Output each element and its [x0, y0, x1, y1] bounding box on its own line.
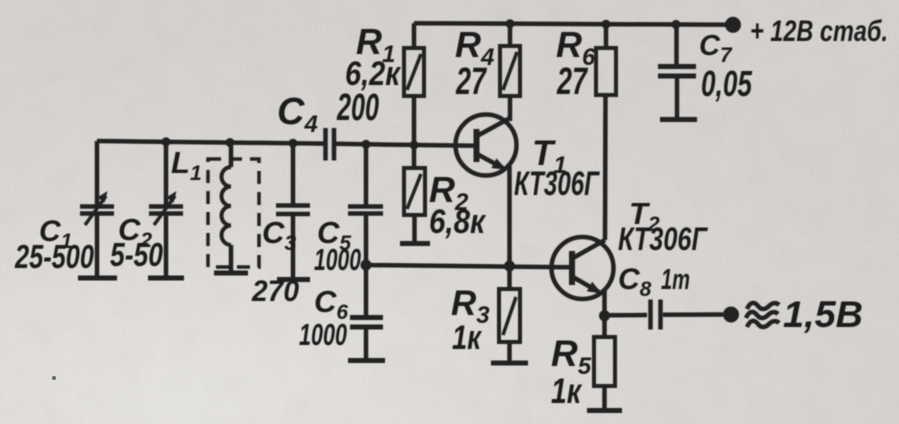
wire C3 top lead	[291, 143, 296, 203]
svg-text:1,5В: 1,5В	[783, 294, 863, 335]
junction dot output node	[599, 310, 610, 321]
wire R1 top lead from rail	[412, 23, 417, 48]
wire R2 top lead	[412, 145, 417, 168]
terminal +12V	[725, 17, 741, 33]
wire L1 top lead	[229, 143, 234, 168]
variable arrow C1	[85, 196, 106, 225]
svg-text:5-50: 5-50	[110, 236, 164, 273]
resistor R3 body	[499, 289, 520, 342]
wire C4 right to T1 base	[334, 144, 476, 146]
capacitor C1 plates	[80, 204, 114, 209]
wire C1 top lead	[95, 141, 100, 205]
left tank bus wire (C1..C4)	[97, 141, 325, 144]
wire R6 bottom lead down to T2 collector	[603, 95, 608, 240]
transistor T2 base bar	[569, 251, 575, 285]
wire T1 emitter down to lower bus	[507, 166, 512, 266]
capacitor C4 plates (series in bus)	[323, 128, 328, 161]
svg-text:1к: 1к	[452, 319, 482, 357]
wire R5 bottom lead	[602, 386, 607, 408]
wire C1 bottom lead	[95, 216, 100, 277]
wire R3 bottom lead	[507, 342, 512, 361]
junction dot rail/R6	[602, 20, 611, 29]
inductor L1 coil	[222, 167, 232, 245]
wire R2 bottom lead	[412, 215, 417, 241]
svg-text:1к: 1к	[551, 372, 583, 411]
junction dot bus/C3	[289, 139, 298, 148]
svg-text:270: 270	[251, 275, 299, 308]
wire C2 top lead	[164, 142, 169, 205]
wire C7 top lead	[674, 24, 679, 64]
svg-text:1000: 1000	[299, 317, 347, 352]
svg-text:1000: 1000	[314, 242, 361, 277]
svg-text:27: 27	[455, 61, 487, 103]
junction dot bus/L1	[226, 138, 235, 147]
resistor R4 power slash	[503, 52, 517, 90]
capacitor C3 plates	[276, 203, 310, 208]
ground bar under C2	[148, 276, 184, 281]
resistor R6 body	[596, 48, 616, 95]
wire C8 to output terminal	[663, 312, 723, 317]
resistor R1 power slash	[407, 54, 421, 90]
ground bar under C7	[660, 117, 697, 122]
resistor R2 power slash	[407, 174, 421, 209]
svg-text:0,05: 0,05	[701, 63, 753, 104]
transistor T2 circle	[552, 237, 614, 299]
transistor T2 emitter stroke with arrow	[573, 277, 599, 292]
wire R1 bottom lead to base node	[412, 96, 417, 145]
shield box around L1 (dashed)	[208, 159, 259, 267]
capacitor C7 plates	[658, 64, 696, 69]
capacitor C8 plates (series)	[648, 300, 653, 330]
resistor R4 body	[500, 46, 520, 96]
junction dot rail/C7	[672, 20, 681, 29]
wire R3 top lead	[507, 266, 512, 289]
junction dot bus/C2	[162, 137, 171, 146]
resistor R5 body	[594, 337, 615, 386]
junction dot rail/R4	[506, 19, 515, 28]
wire C5 top lead	[364, 144, 369, 204]
wire R5 top lead	[602, 316, 607, 337]
wire C7 bottom lead	[675, 79, 680, 118]
transistor T2 collector stroke	[573, 240, 605, 258]
wire output node to C8	[605, 313, 648, 318]
+12V top supply rail	[414, 23, 733, 25]
junction dot base node R1/R2	[410, 141, 419, 150]
wire L1 bottom lead	[229, 245, 234, 271]
ground bar under L1	[214, 271, 248, 276]
ground bar under C3	[277, 277, 310, 282]
junction dot C5/C6/lower bus	[361, 260, 372, 271]
svg-text:27: 27	[556, 61, 588, 103]
capacitor C5 plates	[348, 204, 383, 209]
capacitor C6 plates	[350, 315, 383, 320]
svg-text:+ 12В стаб.: + 12В стаб.	[750, 15, 888, 48]
transistor T1 emitter stroke with arrow	[477, 154, 503, 168]
ground bar under R5	[587, 408, 622, 413]
junction dot bus/C5	[362, 140, 371, 149]
resistor R1 body	[404, 48, 424, 96]
transistor T1 base bar	[474, 129, 480, 162]
svg-text:200: 200	[336, 87, 379, 129]
ground bar under C6	[348, 358, 385, 363]
terminal output 1.5V	[723, 307, 739, 323]
wire C3 bottom lead	[291, 216, 296, 277]
transistor T1 circle	[456, 115, 517, 176]
wire C6 bottom lead	[364, 330, 369, 359]
capacitor C2 plates	[149, 204, 183, 209]
wire T2 emitter down to output node	[602, 291, 607, 316]
svg-text:КТ306Г: КТ306Г	[514, 165, 601, 203]
transistor T1 collector stroke	[477, 118, 510, 136]
resistor R2 body	[404, 168, 425, 215]
wire R6 top lead	[604, 24, 609, 48]
AC wavy symbol (three tildes)	[747, 303, 779, 309]
svg-text:6,8к: 6,8к	[429, 203, 487, 241]
svg-text:КТ306Г: КТ306Г	[618, 221, 708, 257]
ground bar under R3	[491, 361, 528, 366]
wire C5 bottom lead	[364, 216, 369, 266]
ground bar under R2	[400, 241, 430, 246]
wire R4 bottom lead to T1 collector	[508, 96, 513, 121]
ground bar under C1	[78, 276, 117, 281]
svg-text:1т: 1т	[661, 264, 690, 296]
svg-text:25-500: 25-500	[14, 238, 94, 275]
paper speck	[52, 376, 56, 380]
variable arrow C2	[154, 196, 175, 225]
junction dot lower bus / T1 emitter / R3	[504, 261, 515, 272]
lower bus wire to T2 base	[366, 265, 572, 267]
wire C6 top lead	[364, 265, 369, 315]
wire R4 top lead	[508, 24, 513, 46]
wire C2 bottom lead	[164, 216, 169, 277]
resistor R3 power slash	[503, 297, 516, 335]
